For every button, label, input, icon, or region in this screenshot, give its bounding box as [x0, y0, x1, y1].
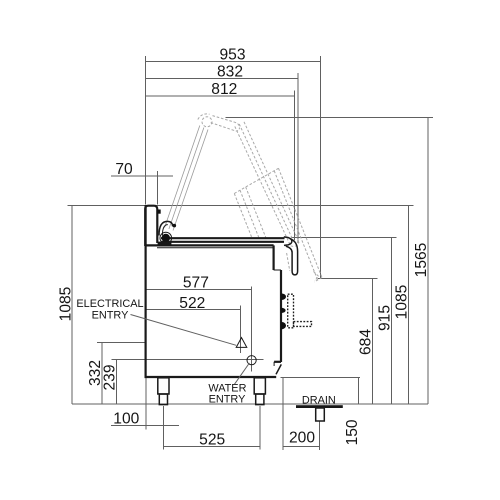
- control panel front: [280, 270, 282, 362]
- dim 200 left ext: [282, 378, 284, 451]
- svg-text:522: 522: [179, 295, 205, 312]
- lid support arm line 2: [169, 128, 204, 230]
- mid-open lid top cap: [234, 168, 278, 193]
- mid-open lid inner line 3: [274, 171, 318, 280]
- dim 953 right ext: [319, 56, 321, 278]
- lid panel inner edge: [235, 126, 291, 245]
- svg-text:915: 915: [376, 305, 393, 331]
- dim 812 right ext: [293, 91, 295, 241]
- dim 953 line: [145, 61, 320, 63]
- front lower edge: [273, 362, 275, 366]
- svg-text:200: 200: [289, 429, 315, 446]
- dim 812 line: [145, 95, 294, 97]
- lid handle bar lower edge: [211, 123, 238, 131]
- svg-text:ENTRY: ENTRY: [209, 394, 246, 406]
- dim 525 right ext: [259, 406, 261, 450]
- lid handle knuckle: [202, 117, 212, 127]
- dim 915 line: [391, 237, 393, 404]
- body top edge: [146, 244, 274, 246]
- body left edge: [145, 205, 147, 377]
- dim 150 line: [357, 378, 359, 405]
- body bottom: [145, 376, 277, 378]
- dim 100 left ext: [145, 378, 147, 430]
- water entry circle: [247, 356, 256, 365]
- svg-text:577: 577: [183, 275, 209, 292]
- dim 684 line: [372, 279, 374, 404]
- dim 332 top ext: [97, 342, 146, 344]
- dim 522 right ext: [239, 306, 241, 354]
- dim 332 line: [101, 343, 103, 404]
- lid support arm line 3: [173, 130, 208, 231]
- electrical entry triangle: [236, 338, 247, 348]
- svg-text:ENTRY: ENTRY: [92, 310, 129, 322]
- dim 1085 right line: [408, 205, 410, 404]
- floor reference line: [72, 403, 428, 405]
- dim 70 right ext: [157, 171, 159, 205]
- pan rim top line: [161, 237, 285, 239]
- svg-text:812: 812: [211, 81, 237, 98]
- dim 684 top ext: [318, 278, 378, 280]
- pan rim lower line: [161, 241, 284, 243]
- dim 1565 top ext: [226, 117, 433, 119]
- body top second line: [157, 247, 274, 249]
- dim 239 top ext (through water entry): [112, 358, 264, 360]
- hinge base blob: [158, 242, 172, 247]
- right foot: [256, 394, 264, 405]
- lid panel bottom tip: [291, 242, 299, 247]
- dim 200 right ext (drain centre): [319, 421, 321, 450]
- left leg: [158, 378, 169, 394]
- lid panel mid line: [239, 124, 294, 244]
- dim 200 line: [283, 446, 320, 448]
- lid panel (open, near vertical) outer edge: [244, 122, 299, 242]
- dim 577 right ext: [250, 287, 252, 372]
- svg-text:1085: 1085: [57, 286, 74, 321]
- drain flange: [296, 405, 343, 408]
- front face upper: [273, 245, 275, 270]
- mid-open lid edge right: [279, 168, 323, 277]
- svg-text:70: 70: [115, 161, 133, 178]
- mid-open lid inner line 1: [240, 190, 259, 238]
- ext line splashback top (y=205.4) full width: [67, 204, 413, 206]
- mid-open lid bottom cap: [314, 278, 322, 283]
- svg-text:953: 953: [219, 46, 245, 63]
- svg-text:525: 525: [199, 432, 225, 449]
- mid-open lid edge left: [234, 194, 252, 239]
- svg-text:DRAIN: DRAIN: [302, 394, 336, 406]
- hinge hook: [159, 221, 173, 235]
- dim 832 right ext: [297, 73, 299, 243]
- dim 239 line: [116, 359, 118, 404]
- mid-open lid tip foot: [314, 272, 319, 281]
- lid support arm line 1: [165, 126, 200, 228]
- knob 3: [281, 322, 286, 330]
- hinge hub: [162, 234, 170, 242]
- left foot: [159, 394, 167, 405]
- drain pipe: [316, 408, 325, 421]
- dim 525 line: [164, 446, 260, 448]
- dim 70 line: [111, 175, 173, 177]
- crank handle (dashed) horizontal: [294, 322, 312, 327]
- splashback hinge block: [157, 210, 160, 214]
- lid handle knuckle top arc: [198, 114, 210, 120]
- dim 150 top ext: [281, 377, 360, 379]
- mid-open lid inner line 2: [246, 187, 266, 238]
- splashback panel: [145, 206, 157, 246]
- dim 832 line: [145, 78, 298, 80]
- svg-text:150: 150: [344, 419, 361, 445]
- dim 915 top ext: [291, 236, 397, 238]
- knob 2: [281, 308, 286, 314]
- front step: [274, 269, 281, 271]
- svg-text:239: 239: [102, 364, 119, 390]
- mid-open lid hidden bits: [287, 253, 290, 271]
- svg-text:832: 832: [217, 64, 243, 81]
- svg-text:ELECTRICAL: ELECTRICAL: [76, 298, 143, 310]
- front chamfer: [276, 364, 281, 374]
- svg-text:684: 684: [357, 329, 374, 355]
- hinge hub ring: [160, 232, 172, 244]
- ext line left common (x=145): [144, 56, 146, 205]
- right leg: [254, 378, 265, 394]
- tilt handle tube: [286, 239, 298, 275]
- dim 100 line: [111, 424, 179, 426]
- dim 1085 left line: [71, 205, 73, 404]
- dim 522 line: [145, 309, 241, 311]
- dim 1565 line: [427, 118, 429, 404]
- svg-text:1085: 1085: [394, 284, 411, 319]
- water entry leader: [235, 363, 250, 384]
- panel bottom step: [274, 361, 281, 363]
- svg-text:1565: 1565: [413, 242, 430, 277]
- crank handle (dashed) vertical: [288, 294, 294, 328]
- leg centre ext: [163, 406, 165, 450]
- svg-text:100: 100: [113, 410, 139, 427]
- arm pivot dot: [173, 224, 177, 228]
- dim 577 line: [145, 289, 252, 291]
- lid handle bar upper edge: [213, 116, 240, 130]
- knob 1: [281, 293, 286, 300]
- electrical entry leader: [131, 315, 237, 346]
- pan rim lip: [284, 237, 292, 246]
